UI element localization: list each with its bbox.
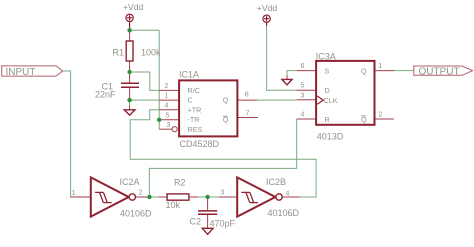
svg-text:4: 4	[286, 191, 290, 198]
svg-text:22nF: 22nF	[95, 90, 116, 100]
ground below C1	[129, 100, 131, 105]
wire +Vdd1 to R1 top horizontal branch	[130, 29, 160, 31]
svg-text:CD4528D: CD4528D	[180, 139, 220, 149]
svg-text:S: S	[325, 67, 330, 76]
resistor R1	[129, 30, 131, 72]
svg-text:3: 3	[221, 190, 225, 197]
svg-text:+Vdd: +Vdd	[123, 2, 144, 12]
svg-text:1: 1	[379, 63, 383, 70]
wire INPUT flag down to IC2A input	[62, 71, 80, 197]
svg-text:R: R	[325, 115, 330, 124]
svg-text:OUTPUT: OUTPUT	[419, 67, 460, 78]
svg-text:40106D: 40106D	[120, 209, 152, 219]
svg-text:10k: 10k	[166, 200, 181, 210]
svg-text:CLK: CLK	[324, 96, 338, 105]
svg-text:5: 5	[301, 83, 305, 90]
svg-text:1: 1	[72, 190, 76, 197]
ground at IC3A S pin	[282, 79, 292, 85]
IC3A pin stubs left	[297, 71, 317, 119]
wire +Vdd1 vertical down to -TR junction	[158, 30, 160, 120]
svg-text:C: C	[188, 96, 193, 105]
wire C1 bottom to C pin 1	[130, 99, 160, 101]
IC1A pin stubs right	[237, 100, 257, 117]
IC1A RES inversion bubble	[172, 127, 177, 132]
junction dot C1 bottom / gnd / pin1	[127, 98, 131, 102]
IC1A pin numbers	[165, 83, 250, 129]
svg-text:470pF: 470pF	[210, 219, 236, 229]
capacitor C2	[207, 197, 209, 228]
svg-text:D: D	[325, 86, 330, 95]
junction dot IC2A output	[147, 195, 151, 199]
svg-text:7: 7	[246, 110, 250, 117]
svg-text:R2: R2	[174, 178, 186, 188]
svg-text:2: 2	[139, 190, 143, 197]
INPUT flag	[2, 66, 63, 76]
IC3A box	[316, 61, 374, 125]
wire +Vdd2 down to D pin	[267, 26, 297, 91]
IC1A pin stubs left	[159, 90, 179, 129]
junction dot at +Vdd1 branch	[127, 28, 131, 32]
resistor R2	[159, 196, 198, 198]
svg-text:4013D: 4013D	[317, 131, 344, 141]
svg-text:IC2A: IC2A	[120, 177, 140, 187]
svg-text:1: 1	[165, 93, 169, 100]
svg-text:R1: R1	[113, 47, 125, 57]
svg-text:Q: Q	[361, 67, 367, 76]
IC2A hysteresis symbol	[95, 192, 112, 202]
svg-text:4: 4	[165, 102, 169, 109]
svg-text:6: 6	[245, 92, 249, 99]
svg-text:40106D: 40106D	[268, 208, 300, 218]
svg-text:3: 3	[301, 92, 305, 99]
svg-text:INPUT: INPUT	[6, 67, 36, 78]
power +Vdd symbol 2	[263, 15, 270, 26]
wire IC3A S pin to ground	[287, 71, 297, 76]
IC3A pin stubs right	[375, 71, 395, 119]
wire clock net: IC1A Q pin6 to IC3A CLK pin3	[257, 99, 297, 101]
svg-text:+TR: +TR	[188, 105, 202, 114]
svg-text:6: 6	[301, 63, 305, 70]
inverter IC2A	[71, 196, 91, 198]
IC3A pin numbers	[301, 63, 383, 119]
wire R1 bottom / C1 top to R/C pin 2	[130, 72, 160, 90]
capacitor C1	[129, 72, 131, 100]
svg-text:100k: 100k	[141, 47, 161, 57]
svg-text:2: 2	[165, 83, 169, 90]
svg-text:+Vdd: +Vdd	[257, 3, 278, 13]
ground below C2	[202, 228, 213, 234]
svg-text:-TR: -TR	[188, 115, 200, 124]
svg-text:IC3A: IC3A	[316, 51, 336, 61]
junction dot R1 bottom / C1 top	[127, 70, 131, 74]
svg-text:C2: C2	[190, 217, 202, 227]
svg-text:RES: RES	[188, 125, 203, 134]
svg-text:3: 3	[167, 122, 171, 129]
svg-text:Q: Q	[223, 96, 229, 105]
IC1A box	[179, 80, 237, 136]
svg-text:IC1A: IC1A	[179, 70, 199, 80]
inverter IC2B	[219, 196, 238, 198]
IC2B hysteresis symbol	[241, 192, 258, 202]
svg-text:4: 4	[301, 112, 305, 119]
svg-text:R/C: R/C	[188, 86, 200, 95]
wire IC3A Q to OUTPUT flag	[394, 70, 414, 72]
svg-text:5: 5	[166, 112, 170, 119]
OUTPUT flag	[414, 66, 473, 75]
junction dot -TR / RES / +Vdd	[157, 118, 161, 122]
IC3A clock input triangle	[317, 96, 323, 104]
power +Vdd symbol 1	[126, 14, 133, 30]
svg-text:2: 2	[379, 112, 383, 119]
svg-text:IC2B: IC2B	[266, 177, 286, 187]
junction dot C2 top	[205, 195, 209, 199]
wire reset net: IC2A output up to IC3A R pin	[149, 119, 296, 197]
wire junction to RES pin	[158, 120, 160, 129]
wire trigger net: +TR pin to IC2B output	[130, 110, 316, 197]
wire bottom oscillator rail IC2A out to IC2B in	[149, 196, 218, 198]
